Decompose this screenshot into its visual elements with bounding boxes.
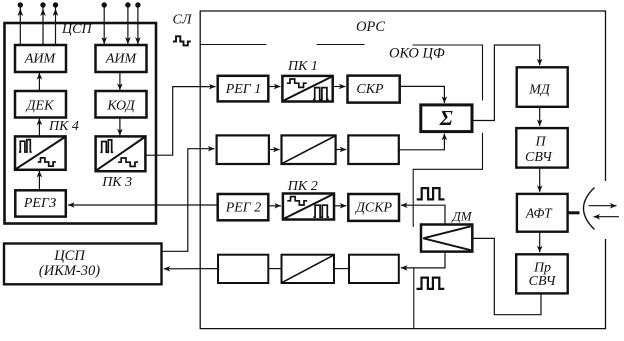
block РЕГ 2 [218,194,269,220]
block АИМ (left) [15,45,66,72]
wire КОД to ПК3 [119,118,121,136]
block ДСКР [348,194,399,221]
antenna arrow in [594,216,620,218]
antenna feeder stub [568,211,580,214]
node dots and arrows top-left (outputs of АИМ 1) [20,6,55,45]
wire РЕГ2 to ПК2 [268,205,281,207]
svg-text:ДЕК: ДЕК [25,98,54,113]
block ПК1 (converter) [282,76,332,102]
svg-text:АИМ: АИМ [105,51,138,66]
svg-text:АИМ: АИМ [24,51,57,66]
svg-text:ДСКР: ДСКР [354,200,393,215]
block КОД [96,91,147,118]
row 2: diagonal block [282,135,336,164]
block ПК2 (converter) [283,194,334,220]
svg-text:СКР: СКР [356,82,384,97]
wire СКР to Σ [400,86,445,103]
wire row2 to Σ [399,134,445,150]
svg-text:ПК 2: ПК 2 [287,179,318,194]
svg-text:ОКО ЦФ: ОКО ЦФ [389,46,445,62]
wire ДЕК to АИМ [38,73,40,91]
svg-text:ПК 3: ПК 3 [101,175,132,190]
wire row4 b2 to b3 [334,268,349,270]
block РЕГ 1 [218,76,269,102]
svg-text:ЦСП: ЦСП [61,22,92,37]
svg-text:П: П [535,135,547,150]
svg-text:ЦСП: ЦСП [53,248,86,264]
block Пр СВЧ [516,254,568,293]
svg-text:ПК 1: ПК 1 [287,59,318,74]
node dots and arrows top-right (inputs of АИМ 2) [104,6,138,45]
block ДЕК [15,91,66,118]
wire РЕГ1 to ПК1 [268,86,280,88]
svg-text:РЕГ 1: РЕГ 1 [225,82,262,97]
wire row2 b2 to b3 [336,149,347,151]
svg-text:РЕГЗ: РЕГЗ [23,196,56,211]
svg-text:СЛ: СЛ [173,13,194,28]
block Σ summator [421,105,472,132]
block СКР [348,76,400,103]
ОКО ЦФ boundary segments [200,45,482,329]
wire АФТ to Пр СВЧ [539,232,541,253]
block ЦСП (ИКМ-30) [4,244,162,285]
waveform symbol lower (near ДМ) [417,278,445,289]
wire ЦСП(ИКМ-30) to row2 filter [162,149,215,252]
wire ПК3 to РЕГ 1 [145,87,215,156]
svg-text:(ИКМ-30): (ИКМ-30) [39,263,100,279]
svg-text:ПК 4: ПК 4 [48,119,79,134]
antenna arrow out [589,205,617,207]
block ПК3 (converter with waveforms) [96,136,146,171]
wire ПК2 to ДСКР [334,205,346,207]
row 2: block (unlabeled) [348,135,399,164]
svg-text:СВЧ: СВЧ [529,274,557,289]
waveform symbol under СЛ [173,36,191,45]
wire ДМ to row4 [401,252,445,268]
block ДМ demodulator [421,225,472,252]
svg-text:РЕГ 2: РЕГ 2 [225,200,262,215]
wire РЕГЗ to ПК4 [38,171,40,191]
wire row4 b1 to b2 [268,268,281,270]
wire МД to П СВЧ [539,107,541,126]
svg-text:Σ: Σ [439,106,453,130]
ЦСП outer box [5,23,157,224]
svg-text:ДМ: ДМ [451,208,473,223]
wire row2 b1 to b2 [269,149,280,151]
block ПК4 (converter with waveforms) [15,136,66,169]
svg-text:АФТ: АФТ [525,206,553,221]
wire ПК4 to ДЕК [38,119,40,137]
row 4: block (unlabeled) [218,255,268,283]
wire П СВЧ to АФТ [539,168,541,192]
block АИМ (right) [96,45,147,72]
block АФТ [517,194,568,232]
block П СВЧ [516,128,567,168]
wire Σ to МД [472,45,539,121]
wire АИМ to КОД [119,72,121,90]
wire row4 to ЦСП(ИКМ-30) [164,268,218,270]
row 2: block (unlabeled) [217,135,269,164]
svg-text:СВЧ: СВЧ [525,150,553,165]
block РЕГЗ [15,190,66,216]
svg-text:ОРС: ОРС [356,19,385,35]
row 4: block (unlabeled) [349,255,399,283]
wire Пр СВЧ to ДМ [473,238,541,314]
wire РЕГ 2 line to РЕГЗ [68,204,218,206]
block МД [517,67,568,107]
row 4: diagonal block [282,255,335,283]
ОРС outer box [200,11,605,329]
svg-text:КОД: КОД [106,98,135,113]
wire ПК1 to СКР [333,86,346,88]
antenna arc [584,188,595,230]
wire ДМ to ДСКР [401,205,445,224]
waveform symbol upper (near ДМ) [417,188,445,199]
svg-text:МД: МД [528,83,551,98]
